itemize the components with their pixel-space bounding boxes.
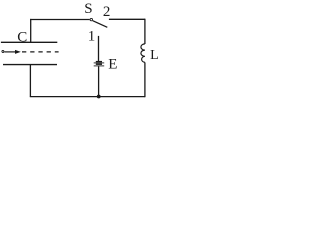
wire bottom-left vertical (29, 65, 31, 97)
junction dot (97, 95, 101, 99)
switch contact 1 stub / battery branch upper wire (98, 36, 100, 61)
battery branch lower wire (98, 66, 100, 96)
capacitor C top plate (1, 41, 57, 43)
battery E plate short thick (top) (96, 61, 102, 63)
velocity arrowhead (15, 50, 21, 54)
switch S pivot (90, 18, 92, 20)
capacitor C bottom plate (3, 64, 57, 66)
velocity arrow shaft (4, 51, 16, 53)
svg-text:L: L (150, 48, 159, 63)
background (0, 0, 160, 104)
svg-text:S: S (84, 1, 92, 17)
svg-text:E: E (108, 56, 117, 72)
inductor L coil (141, 44, 145, 63)
wire left vertical (30, 19, 32, 43)
charged particle (open dot) (2, 51, 4, 53)
svg-text:1: 1 (88, 29, 96, 45)
svg-text:2: 2 (103, 4, 111, 20)
wire top-right horizontal (109, 18, 145, 20)
battery E plate long thin (94, 62, 105, 64)
svg-text:C: C (17, 30, 27, 46)
dashed trajectory (22, 51, 59, 53)
wire top-left horizontal (30, 19, 90, 21)
wire right vertical upper (144, 19, 146, 44)
battery E plate long thin (bottom) (94, 65, 105, 67)
battery E plate short thick (second) (96, 63, 102, 65)
wire bottom horizontal (30, 96, 145, 98)
wire right vertical lower (144, 62, 146, 97)
switch S blade (93, 21, 108, 28)
